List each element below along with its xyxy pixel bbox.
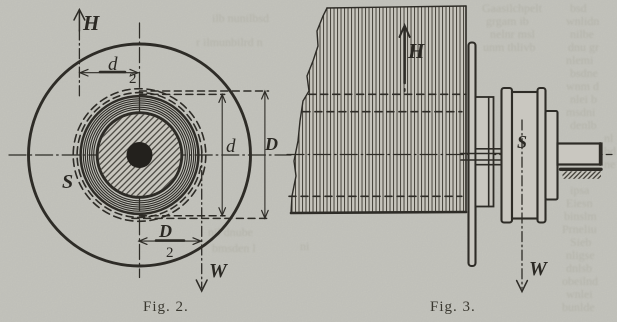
svg-text:bsd: bsd (570, 1, 587, 15)
svg-text:2: 2 (166, 245, 174, 261)
H arrow in block (403, 27, 406, 83)
d vertical dimension (221, 94, 223, 215)
svg-text:wnm d: wnm d (566, 79, 599, 93)
svg-text:ni: ni (300, 239, 310, 253)
spool right plate (538, 88, 546, 223)
svg-text:nelnr msl: nelnr msl (490, 27, 536, 41)
svg-text:W: W (529, 258, 548, 280)
D vertical dimension (264, 91, 266, 218)
svg-text:D: D (158, 221, 172, 241)
svg-text:binslm: binslm (564, 209, 597, 223)
svg-text:Prneliu: Prneliu (562, 222, 597, 236)
ghost bleed-through text (196, 1, 616, 314)
horizontal centerline (287, 154, 612, 156)
svg-text:d: d (108, 54, 118, 75)
svg-text:bunlde: bunlde (562, 300, 595, 314)
svg-text:nligse: nligse (566, 248, 595, 262)
svg-text:nlei b: nlei b (570, 92, 597, 106)
svg-text:S: S (517, 132, 527, 152)
Fig 2 labels (62, 11, 278, 282)
svg-text:W: W (209, 260, 228, 282)
svg-text:Fig. 3.: Fig. 3. (430, 299, 476, 315)
dashed circle outer (73, 89, 206, 222)
svg-text:H: H (407, 39, 425, 63)
center shaft dot (127, 142, 153, 168)
svg-text:ipsa: ipsa (570, 183, 590, 197)
W axis dash-dot with arrow (521, 120, 523, 288)
svg-text:bsdne: bsdne (570, 66, 598, 80)
outer circle (disc rim) (29, 44, 251, 266)
coil winding rings (81, 96, 199, 214)
hub lines (461, 153, 502, 155)
Fig 3 labels (407, 39, 548, 280)
svg-text:ilb nunilbsd: ilb nunilbsd (212, 11, 269, 25)
svg-text:msdni: msdni (566, 105, 596, 119)
svg-text:nlemi: nlemi (566, 53, 594, 67)
svg-text:wnlei: wnlei (566, 287, 593, 301)
horizontal centerline (9, 154, 291, 156)
collar (546, 111, 558, 200)
shaft (558, 144, 602, 165)
svg-text:Fig. 2.: Fig. 2. (143, 299, 189, 315)
svg-text:grgam ib: grgam ib (486, 14, 529, 28)
H axis line with arrow (top) (78, 30, 80, 97)
svg-text:S: S (62, 171, 73, 193)
svg-text:bd: bd (604, 144, 616, 158)
svg-text:Sieb: Sieb (570, 235, 591, 249)
svg-text:Gaasilchpelt: Gaasilchpelt (482, 1, 543, 15)
svg-text:obeilnd: obeilnd (562, 274, 598, 288)
spool left plate (502, 88, 513, 223)
svg-text:D: D (264, 134, 278, 154)
svg-text:denlb: denlb (570, 118, 597, 132)
svg-text:dnu gr: dnu gr (568, 40, 599, 54)
svg-text:unm thlivb: unm thlivb (483, 40, 535, 54)
svg-text:r ilmunbilrd n: r ilmunbilrd n (196, 35, 263, 49)
dashed lines across block (309, 93, 466, 95)
W axis line with arrow (bottom right) (201, 152, 203, 288)
svg-text:nl: nl (604, 131, 614, 145)
svg-text:nilbe: nilbe (570, 27, 594, 41)
svg-text:d: d (226, 136, 236, 157)
bearing (561, 168, 602, 171)
svg-text:bmsden l: bmsden l (212, 241, 256, 255)
dashed tangent lines (140, 90, 269, 92)
spool body (512, 92, 538, 219)
hatched core disc (99, 114, 181, 196)
svg-text:H: H (82, 11, 100, 35)
tall flange disc (469, 43, 476, 267)
svg-text:2: 2 (129, 71, 137, 87)
d/2 dimension (top) (79, 72, 138, 74)
D/2 dimension (bottom) (139, 240, 202, 242)
cylinder between flange and spool (476, 97, 494, 207)
vertical centerline (139, 23, 141, 278)
dashed circle inner (77, 93, 202, 218)
hatched magnet block with torn left edge (291, 6, 466, 213)
svg-text:wnlidn: wnlidn (566, 14, 599, 28)
svg-text:ne: ne (604, 157, 615, 171)
svg-text:Eiesn: Eiesn (566, 196, 593, 210)
svg-text:dnlsb: dnlsb (566, 261, 592, 275)
